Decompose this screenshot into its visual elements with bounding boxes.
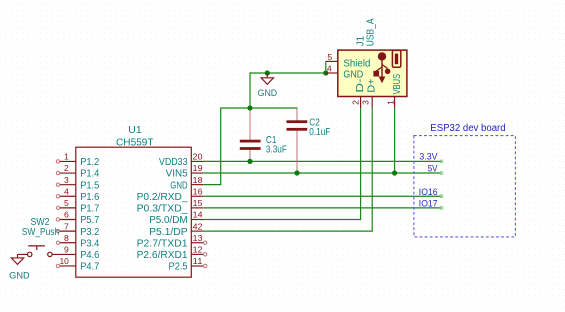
svg-text:IO17: IO17 xyxy=(419,199,438,210)
svg-text:VIN5: VIN5 xyxy=(166,169,188,180)
svg-text:P2.7/TXD1: P2.7/TXD1 xyxy=(137,238,188,249)
svg-text:ESP32 dev board: ESP32 dev board xyxy=(430,123,505,134)
svg-text:5: 5 xyxy=(327,52,332,62)
svg-text:P2.6/RXD1: P2.6/RXD1 xyxy=(137,250,188,261)
svg-text:9: 9 xyxy=(64,245,69,255)
svg-text:P2.5: P2.5 xyxy=(169,262,189,273)
svg-text:P1.4: P1.4 xyxy=(80,169,100,180)
svg-text:12: 12 xyxy=(193,245,203,255)
svg-text:1: 1 xyxy=(64,152,69,162)
svg-text:VBUS: VBUS xyxy=(392,74,403,95)
svg-text:VDD33: VDD33 xyxy=(159,157,188,168)
svg-text:13: 13 xyxy=(193,233,203,243)
svg-text:1: 1 xyxy=(386,100,396,105)
svg-text:20: 20 xyxy=(193,152,203,162)
svg-text:GND: GND xyxy=(170,180,187,191)
svg-text:5: 5 xyxy=(64,198,69,208)
svg-text:6: 6 xyxy=(64,210,69,220)
svg-text:42: 42 xyxy=(193,221,203,231)
svg-text:18: 18 xyxy=(193,175,203,185)
svg-text:19: 19 xyxy=(193,163,203,173)
svg-text:3.3uF: 3.3uF xyxy=(266,145,287,156)
svg-text:P1.6: P1.6 xyxy=(80,192,100,203)
svg-text:4: 4 xyxy=(64,186,69,196)
svg-text:USB_A: USB_A xyxy=(366,18,377,46)
svg-text:IO16: IO16 xyxy=(419,187,438,198)
svg-text:P0.3/TXD_: P0.3/TXD_ xyxy=(137,204,188,215)
svg-text:16: 16 xyxy=(193,186,203,196)
svg-text:P5.7: P5.7 xyxy=(80,215,100,226)
svg-text:P5.1/DP: P5.1/DP xyxy=(149,227,188,238)
svg-text:GND: GND xyxy=(258,87,278,98)
svg-text:14: 14 xyxy=(193,210,203,220)
svg-text:11: 11 xyxy=(193,256,203,266)
svg-text:P3.2: P3.2 xyxy=(80,227,100,238)
svg-text:3: 3 xyxy=(361,100,371,105)
svg-text:2: 2 xyxy=(350,100,360,105)
svg-text:5V: 5V xyxy=(428,163,438,174)
svg-text:GND: GND xyxy=(9,270,30,281)
svg-text:D-: D- xyxy=(355,79,366,93)
svg-text:CH559T: CH559T xyxy=(116,137,154,149)
svg-text:15: 15 xyxy=(193,198,203,208)
svg-text:Shield: Shield xyxy=(343,59,370,70)
svg-text:2: 2 xyxy=(64,163,69,173)
svg-text:4: 4 xyxy=(327,63,332,73)
svg-text:7: 7 xyxy=(64,221,69,231)
svg-text:10: 10 xyxy=(60,256,70,266)
svg-text:P3.4: P3.4 xyxy=(80,238,100,249)
svg-text:SW_Push: SW_Push xyxy=(22,227,59,238)
svg-text:8: 8 xyxy=(64,233,69,243)
svg-text:P0.2/RXD_: P0.2/RXD_ xyxy=(137,192,188,203)
svg-text:P1.5: P1.5 xyxy=(80,180,100,191)
svg-text:P1.7: P1.7 xyxy=(80,204,100,215)
svg-text:P1.2: P1.2 xyxy=(80,157,100,168)
svg-text:D+: D+ xyxy=(366,78,377,92)
svg-text:P4.6: P4.6 xyxy=(80,250,100,261)
svg-text:U1: U1 xyxy=(128,124,142,136)
svg-text:3: 3 xyxy=(64,175,69,185)
svg-text:0.1uF: 0.1uF xyxy=(309,127,330,138)
svg-text:P4.7: P4.7 xyxy=(80,262,100,273)
svg-text:P5.0/DM: P5.0/DM xyxy=(149,215,188,226)
svg-text:3.3V: 3.3V xyxy=(419,151,438,162)
